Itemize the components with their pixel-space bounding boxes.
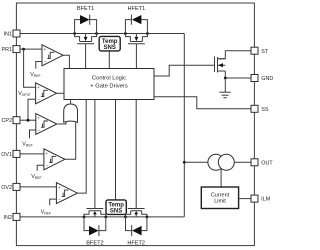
op-amp comparator OV1 xyxy=(44,149,65,170)
block Current Limit xyxy=(201,187,238,209)
pin SS xyxy=(251,105,269,113)
transistor BFET2 xyxy=(84,100,106,217)
node HFET2 left xyxy=(124,216,127,219)
wire CP2 comparator minus to VREF xyxy=(30,130,36,138)
op-amp comparator PR1 priority xyxy=(42,45,63,66)
diode HFET2 body diode xyxy=(126,217,147,236)
block Control Logic + Gate Drivers U1 xyxy=(64,69,154,100)
node BFET2 right xyxy=(104,216,107,219)
wire PR1 riser to offset comparator xyxy=(24,49,36,87)
wire gate drive to status FET xyxy=(154,65,215,76)
wire offset comparator output xyxy=(57,92,64,94)
pin ST xyxy=(251,47,269,55)
svg-text:CP2: CP2 xyxy=(2,118,13,124)
pin OV2 xyxy=(1,183,20,191)
wire CP2 comparator output to OR gate xyxy=(57,122,66,125)
wire OV2 minus to VREF xyxy=(50,199,57,205)
svg-text:ILM: ILM xyxy=(261,197,270,203)
pin PR1 xyxy=(2,46,21,54)
svg-text:−: − xyxy=(44,60,47,65)
node CP2 junction xyxy=(27,119,30,122)
wire IN1 rail xyxy=(20,33,184,35)
pin IN2 xyxy=(4,213,20,221)
diode BFET1 body diode xyxy=(75,15,97,34)
svg-text:−: − xyxy=(46,164,49,169)
wire status FET drain to ST xyxy=(218,51,252,59)
IC boundary box xyxy=(16,3,254,246)
svg-text:BFET1: BFET1 xyxy=(77,6,94,12)
gate OR xyxy=(64,104,78,122)
wire OV1 to comparator xyxy=(20,153,44,155)
transistor BFET1 xyxy=(75,34,97,69)
svg-text:SNS: SNS xyxy=(110,209,122,215)
block Temp SNS top xyxy=(99,36,120,68)
wire offset comparator minus to CP2 node xyxy=(28,99,36,120)
transistor HFET2 xyxy=(126,100,147,217)
pin GND xyxy=(251,75,273,83)
svg-text:+: + xyxy=(45,151,48,156)
node HFET1 right xyxy=(146,32,149,35)
svg-text:HFET2: HFET2 xyxy=(127,240,145,246)
node BFET2 left xyxy=(83,216,86,219)
pin IN1 xyxy=(4,30,20,38)
svg-text:HFET1: HFET1 xyxy=(128,6,146,12)
svg-text:IN2: IN2 xyxy=(4,215,12,221)
diode HFET1 body diode xyxy=(125,15,147,34)
svg-text:−: − xyxy=(38,128,41,133)
pin ILM xyxy=(251,195,271,203)
svg-text:+: + xyxy=(58,185,61,190)
svg-text:Temp: Temp xyxy=(108,203,124,209)
svg-text:IN1: IN1 xyxy=(4,32,12,38)
svg-text:−: − xyxy=(37,98,40,103)
op-amp comparator VOFST xyxy=(36,83,57,104)
op-amp comparator OV2 xyxy=(56,183,77,204)
wire OUT line xyxy=(184,161,251,163)
svg-text:SNS: SNS xyxy=(104,45,116,51)
node OUT junction xyxy=(183,161,186,164)
transistor HFET1 xyxy=(125,34,147,69)
svg-text:+ Gate Drivers: + Gate Drivers xyxy=(90,83,128,89)
wire SS from control logic xyxy=(154,97,251,109)
svg-text:ST: ST xyxy=(261,49,269,55)
pin OV1 xyxy=(1,150,20,158)
svg-text:GND: GND xyxy=(261,76,273,82)
wire IN2 rail xyxy=(20,216,184,218)
svg-text:OUT: OUT xyxy=(261,160,273,166)
pin OUT xyxy=(251,159,273,167)
wire OUT riser xyxy=(183,34,185,217)
wire OV2 to comparator xyxy=(20,186,56,188)
block Temp SNS bottom xyxy=(106,100,126,215)
wire OR output to control logic xyxy=(70,100,72,105)
svg-text:+: + xyxy=(44,47,47,52)
ground xyxy=(219,78,230,98)
node IN1-BFET1 left xyxy=(73,32,76,35)
pin CP2 xyxy=(2,117,21,125)
wire PR1 comparator minus to VREF xyxy=(36,62,42,69)
node BFET1 right xyxy=(95,32,98,35)
transistor status FET Q1 xyxy=(215,57,226,73)
svg-text:Temp: Temp xyxy=(102,39,118,45)
wire Current Limit to ILM xyxy=(239,198,251,200)
node source-ground junction xyxy=(224,77,227,80)
wire OV1 minus to VREF xyxy=(37,165,44,171)
svg-text:+: + xyxy=(37,85,40,90)
wire OV2 output riser to control logic xyxy=(77,100,86,194)
node HFET2 right xyxy=(146,216,149,219)
wire OV1 output to OR gate xyxy=(65,122,76,160)
svg-text:BFET2: BFET2 xyxy=(86,240,103,246)
svg-text:OV2: OV2 xyxy=(1,185,12,191)
op-amp comparator CP2 xyxy=(36,114,57,135)
svg-text:Limit: Limit xyxy=(214,199,226,205)
svg-text:Current: Current xyxy=(211,192,230,198)
svg-text:Control Logic: Control Logic xyxy=(92,76,126,82)
wire PR1 to comparator xyxy=(20,48,42,50)
svg-text:PR1: PR1 xyxy=(2,47,13,53)
current source soft start xyxy=(208,154,234,187)
svg-text:OV1: OV1 xyxy=(1,152,12,158)
wire CP2 to comparator xyxy=(20,119,36,121)
wire status FET source to GND xyxy=(225,71,251,78)
node HFET1 left xyxy=(124,32,127,35)
diode BFET2 body diode xyxy=(84,217,106,236)
node PR1 junction xyxy=(22,48,25,51)
svg-text:+: + xyxy=(37,116,40,121)
svg-text:SS: SS xyxy=(261,107,269,113)
wire comparator PR1 output xyxy=(63,55,69,68)
svg-text:−: − xyxy=(58,197,61,202)
